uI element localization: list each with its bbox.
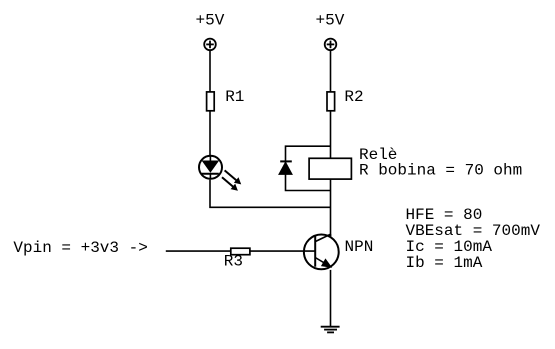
wire LED cathode down and right to collector node <box>210 180 331 208</box>
wire collector up <box>330 234 332 236</box>
svg-text:R3: R3 <box>224 253 243 271</box>
svg-text:Vpin = +3v3 ->: Vpin = +3v3 -> <box>13 239 147 257</box>
flyback diode D2 <box>279 161 292 174</box>
LED D1 <box>199 156 222 179</box>
svg-text:R1: R1 <box>225 88 244 106</box>
flyback diode branch wires <box>286 146 331 190</box>
resistor R1 <box>207 92 215 111</box>
svg-text:R2: R2 <box>344 88 363 106</box>
transistor Q1 NPN <box>304 234 339 269</box>
relay coil K1 <box>309 158 351 179</box>
svg-text:+5V: +5V <box>316 12 345 30</box>
LED light arrow 2 <box>222 177 238 191</box>
svg-text:+5V: +5V <box>196 12 225 30</box>
svg-text:R bobina = 70 ohm: R bobina = 70 ohm <box>359 162 522 180</box>
resistor R3 <box>231 248 250 255</box>
LED light arrow 1 <box>225 170 242 184</box>
wire relay coil to collector node <box>330 179 332 236</box>
ground <box>321 327 340 333</box>
power symbol +5V left <box>204 39 216 51</box>
wire R3 to base <box>250 250 315 252</box>
resistor R2 <box>327 92 335 111</box>
svg-text:Ib = 1mA: Ib = 1mA <box>406 254 483 272</box>
power symbol +5V right <box>325 39 337 51</box>
wire R1 to LED <box>209 111 211 155</box>
wire Vpin to R3 <box>166 250 231 252</box>
wire emitter to ground <box>330 270 332 327</box>
wire supply-left to R1 <box>209 51 211 92</box>
wire supply-right to R2 <box>330 51 332 92</box>
wire R2 to relay coil <box>330 111 332 159</box>
svg-text:NPN: NPN <box>345 238 374 256</box>
